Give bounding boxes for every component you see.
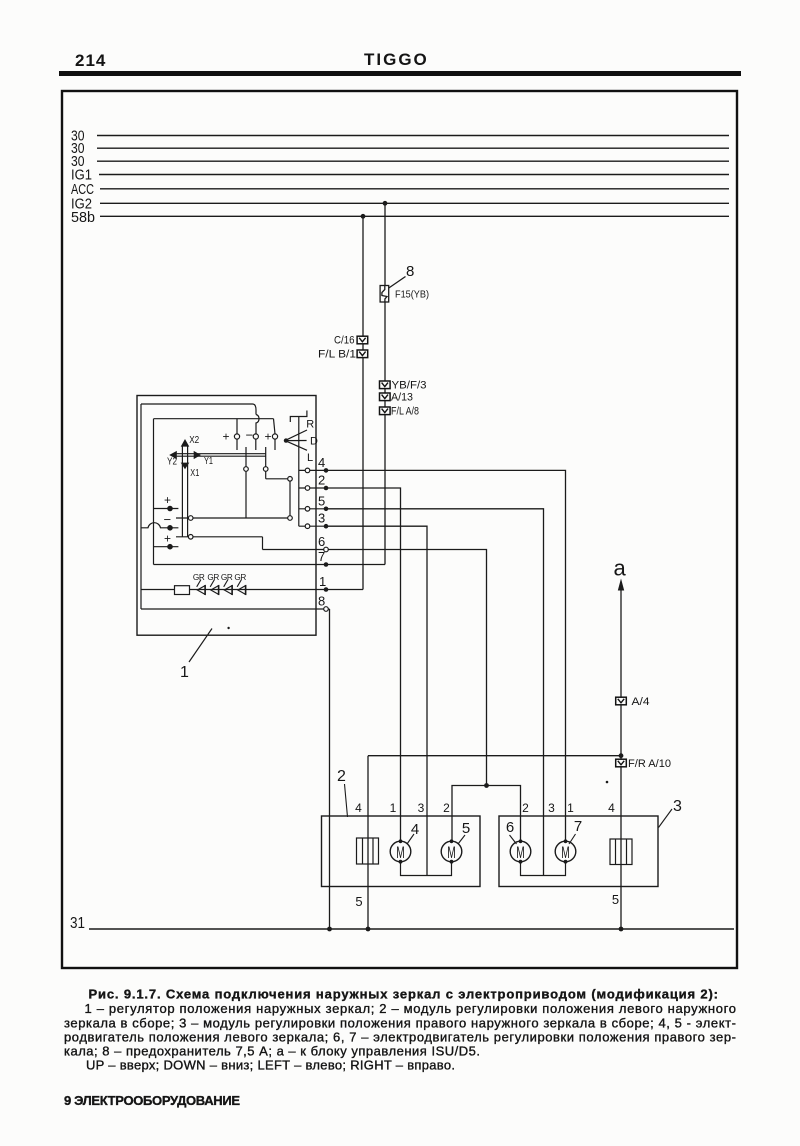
svg-text:9 ЭЛЕКТРООБОРУДОВАНИЕ: 9 ЭЛЕКТРООБОРУДОВАНИЕ (64, 1093, 240, 1108)
svg-text:зеркала в сборе; 3 – модуль ре: зеркала в сборе; 3 – модуль регулировки … (64, 1015, 736, 1030)
svg-text:кала; 8 – предохранитель 7,5 А: кала; 8 – предохранитель 7,5 А; а – к бл… (64, 1044, 480, 1059)
svg-text:Рис. 9.1.7. Схема подключения: Рис. 9.1.7. Схема подключения наружных з… (89, 987, 719, 1002)
svg-text:1 – регулятор положения наружн: 1 – регулятор положения наружных зеркал;… (85, 1001, 737, 1016)
svg-text:UP – вверх; DOWN – вниз; LEFT: UP – вверх; DOWN – вниз; LEFT – влево; R… (86, 1058, 455, 1073)
svg-text:родвигатель положения левого з: родвигатель положения левого зеркала; 6,… (64, 1030, 736, 1045)
